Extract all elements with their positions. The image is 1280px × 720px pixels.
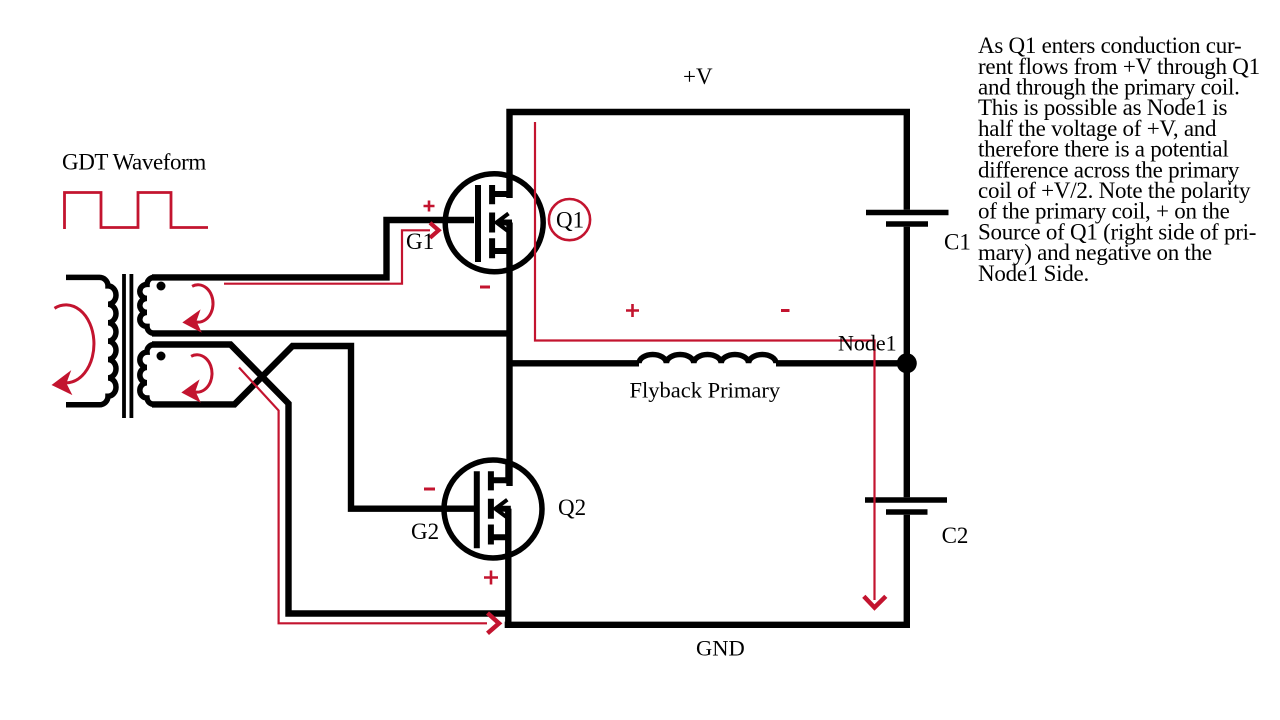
svg-text:C1: C1 [944,229,971,254]
svg-text:G2: G2 [411,519,439,544]
svg-text:G1: G1 [406,229,434,254]
svg-text:Q1: Q1 [556,208,584,233]
svg-text:Node1: Node1 [838,330,897,355]
svg-text:+V: +V [683,64,713,89]
svg-text:Q2: Q2 [558,495,586,520]
svg-text:GDT Waveform: GDT Waveform [62,150,206,175]
svg-text:C2: C2 [942,523,969,548]
svg-text:GND: GND [696,635,745,660]
svg-text:Flyback Primary: Flyback Primary [630,378,781,403]
svg-text:Node1 Side.: Node1 Side. [978,261,1089,286]
